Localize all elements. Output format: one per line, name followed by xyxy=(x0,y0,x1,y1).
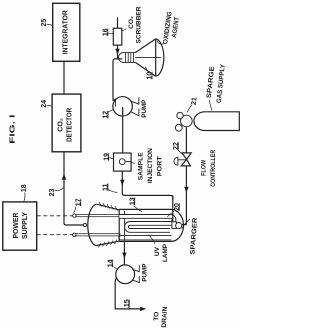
underline 13 xyxy=(134,197,136,205)
svg-text:CO₂: CO₂ xyxy=(128,16,135,29)
vessel joint line 2 xyxy=(124,211,126,241)
leader SPARGE GAS SUPPLY xyxy=(209,100,212,110)
leader 14 xyxy=(113,267,116,269)
svg-text:TO: TO xyxy=(153,312,160,321)
vessel body bottom edge xyxy=(119,240,171,242)
leader 18 xyxy=(24,193,25,202)
leader 13 xyxy=(134,206,142,212)
funnel axis line xyxy=(135,57,161,59)
underline 17 xyxy=(80,199,82,207)
valve actuator stem xyxy=(178,159,187,161)
svg-text:16: 16 xyxy=(103,28,110,36)
svg-text:POWER: POWER xyxy=(13,213,20,239)
wire pump 14 to drain xyxy=(115,278,143,309)
wire scrubber vent xyxy=(117,17,119,28)
bottom sparge tube wall top xyxy=(121,235,172,237)
sparger vessel left dome xyxy=(88,204,97,245)
oxidizer funnel cone 10 xyxy=(135,39,155,76)
neck hatch ticks bottom xyxy=(98,240,117,248)
UV lamp serpentine tube bore xyxy=(119,216,174,230)
vessel joint line 1 xyxy=(118,210,120,242)
leader OXIDIZING AGENT xyxy=(157,41,164,44)
arrow to drain xyxy=(140,307,146,311)
svg-text:CO₂: CO₂ xyxy=(57,118,64,132)
svg-text:UV: UV xyxy=(154,246,161,256)
svg-text:22: 22 xyxy=(173,142,180,150)
vessel right cap xyxy=(171,209,183,241)
lamp electrode rod 1 xyxy=(76,215,120,217)
vessel body top edge xyxy=(119,208,171,210)
valve 22 top triangle xyxy=(182,153,191,159)
regulator gauge circle 2 xyxy=(175,124,182,131)
svg-text:PUMP: PUMP xyxy=(142,263,149,282)
leader 20 xyxy=(167,212,174,217)
sample inlet fitting square xyxy=(172,222,177,229)
pump P12 head tab lower xyxy=(131,109,139,116)
svg-text:DETECTOR: DETECTOR xyxy=(66,108,73,142)
wire scrubber to tee xyxy=(117,45,119,59)
injection port circle xyxy=(119,159,125,165)
pump P14 circle xyxy=(116,265,135,284)
sparge inlet nub circle xyxy=(176,223,182,229)
leader SPARGER xyxy=(182,219,190,229)
svg-text:DRAIN: DRAIN xyxy=(161,306,169,328)
underline 22 xyxy=(178,142,180,150)
leader 11 xyxy=(109,190,118,193)
leader 24 xyxy=(47,104,52,107)
leader 23 xyxy=(55,188,64,191)
svg-text:24: 24 xyxy=(41,100,48,108)
leader 15 xyxy=(128,307,132,309)
bottom sparge tube left cap xyxy=(119,236,121,240)
wire regulator to valve xyxy=(185,127,187,153)
wire vessel to pump 14 xyxy=(123,242,125,274)
svg-text:FIG. I: FIG. I xyxy=(10,115,17,144)
svg-text:INTEGRATOR: INTEGRATOR xyxy=(63,10,70,54)
svg-text:21: 21 xyxy=(191,97,199,106)
svg-text:15: 15 xyxy=(124,299,131,307)
leader 10 xyxy=(145,67,147,72)
leader 25 xyxy=(47,25,53,26)
arrow scrubber down xyxy=(115,49,119,55)
vessel neck top edge xyxy=(97,204,119,210)
pump P12 circle xyxy=(113,97,133,117)
leader SAMPLE xyxy=(131,162,135,165)
svg-text:14: 14 xyxy=(107,259,114,267)
injection port stub xyxy=(125,161,131,163)
valve 22 bottom triangle xyxy=(181,159,190,166)
neck hatch ticks top xyxy=(99,202,118,210)
regulator body circle xyxy=(181,115,193,127)
lamp pin terminal circle 2 xyxy=(73,233,76,236)
sparger outlet port circle xyxy=(83,223,86,226)
svg-text:SCRUBBER: SCRUBBER xyxy=(135,6,142,43)
underline 20 xyxy=(179,203,181,211)
arrow gas down xyxy=(184,187,188,193)
wire sample stub into vessel xyxy=(172,195,174,222)
vessel neck bottom edge xyxy=(96,241,119,245)
svg-text:PUMP: PUMP xyxy=(141,99,148,118)
svg-text:18: 18 xyxy=(21,184,28,192)
frit hatching xyxy=(126,53,134,63)
UV lamp serpentine tube outer xyxy=(119,216,174,230)
regulator gauge circle 1 xyxy=(177,112,183,118)
valve actuator semicircle xyxy=(174,157,178,165)
lamp electrode rod 2 xyxy=(76,234,120,236)
wire 23 detector down to sparger port xyxy=(64,152,84,225)
box 19 sample injection port xyxy=(114,153,132,171)
underline 14 xyxy=(112,260,114,268)
funnel right cap xyxy=(156,39,164,76)
svg-text:17: 17 xyxy=(75,198,82,206)
box U24 CO2 detector xyxy=(52,94,81,152)
gas cylinder 21 xyxy=(194,112,239,131)
pump P12 inlet inside xyxy=(113,99,116,107)
dashed wire power to lamp pin 2 xyxy=(37,234,73,236)
svg-text:10: 10 xyxy=(147,72,154,80)
svg-text:23: 23 xyxy=(49,189,56,197)
underline 19 xyxy=(108,153,110,161)
wire tee horizontal xyxy=(113,59,122,101)
pump P14 head tab lower xyxy=(132,276,139,282)
leader 16 xyxy=(108,32,113,34)
svg-text:LAMP: LAMP xyxy=(162,243,169,262)
svg-text:13: 13 xyxy=(129,197,136,205)
pump P12 outlet xyxy=(122,107,124,153)
bottom sparge tube wall bottom xyxy=(121,239,172,241)
wire integrator to CO2 detector xyxy=(63,61,65,94)
pump P12 head tab upper xyxy=(131,97,139,104)
svg-text:20: 20 xyxy=(174,203,181,211)
oxidizer frit cylinder xyxy=(119,53,136,63)
underline 11 xyxy=(107,184,109,192)
svg-text:INJECTION: INJECTION xyxy=(147,148,154,183)
underline 12 xyxy=(107,111,109,119)
leader 12 xyxy=(109,110,114,112)
arrow up into detector xyxy=(62,174,66,180)
dashed wire power to lamp pin 1 xyxy=(37,215,73,217)
leader 19 xyxy=(109,158,113,160)
svg-text:FLOW: FLOW xyxy=(201,159,208,176)
leader 17 xyxy=(74,207,76,213)
svg-text:19: 19 xyxy=(103,153,110,161)
leader 22 xyxy=(178,150,182,154)
svg-text:SUPPLY: SUPPLY xyxy=(22,212,29,239)
pump P14 head tab upper xyxy=(132,265,139,271)
svg-text:25: 25 xyxy=(41,19,48,27)
box 16 CO2 scrubber xyxy=(113,28,122,45)
arrow 11 down xyxy=(120,180,124,186)
underline 15 xyxy=(128,299,130,307)
underline 16 xyxy=(107,28,109,36)
leader 21 xyxy=(187,105,192,113)
svg-text:SAMPLE: SAMPLE xyxy=(137,152,144,181)
box U18 power supply xyxy=(3,202,37,250)
arrow into pump 14 xyxy=(122,253,126,259)
leader CO2 SCRUBBER xyxy=(122,29,127,31)
wire gas stub into nub xyxy=(182,224,187,226)
svg-text:CONTROLLER: CONTROLLER xyxy=(210,150,217,187)
underline 10 xyxy=(151,72,153,80)
box U25 integrator xyxy=(53,3,80,61)
svg-text:PORT: PORT xyxy=(156,156,163,176)
lamp pin terminal circle 1 xyxy=(73,214,76,217)
wire injection port to sparger xyxy=(122,171,173,200)
wire valve to sparger nub xyxy=(185,166,187,225)
leader UV LAMP xyxy=(149,235,155,244)
